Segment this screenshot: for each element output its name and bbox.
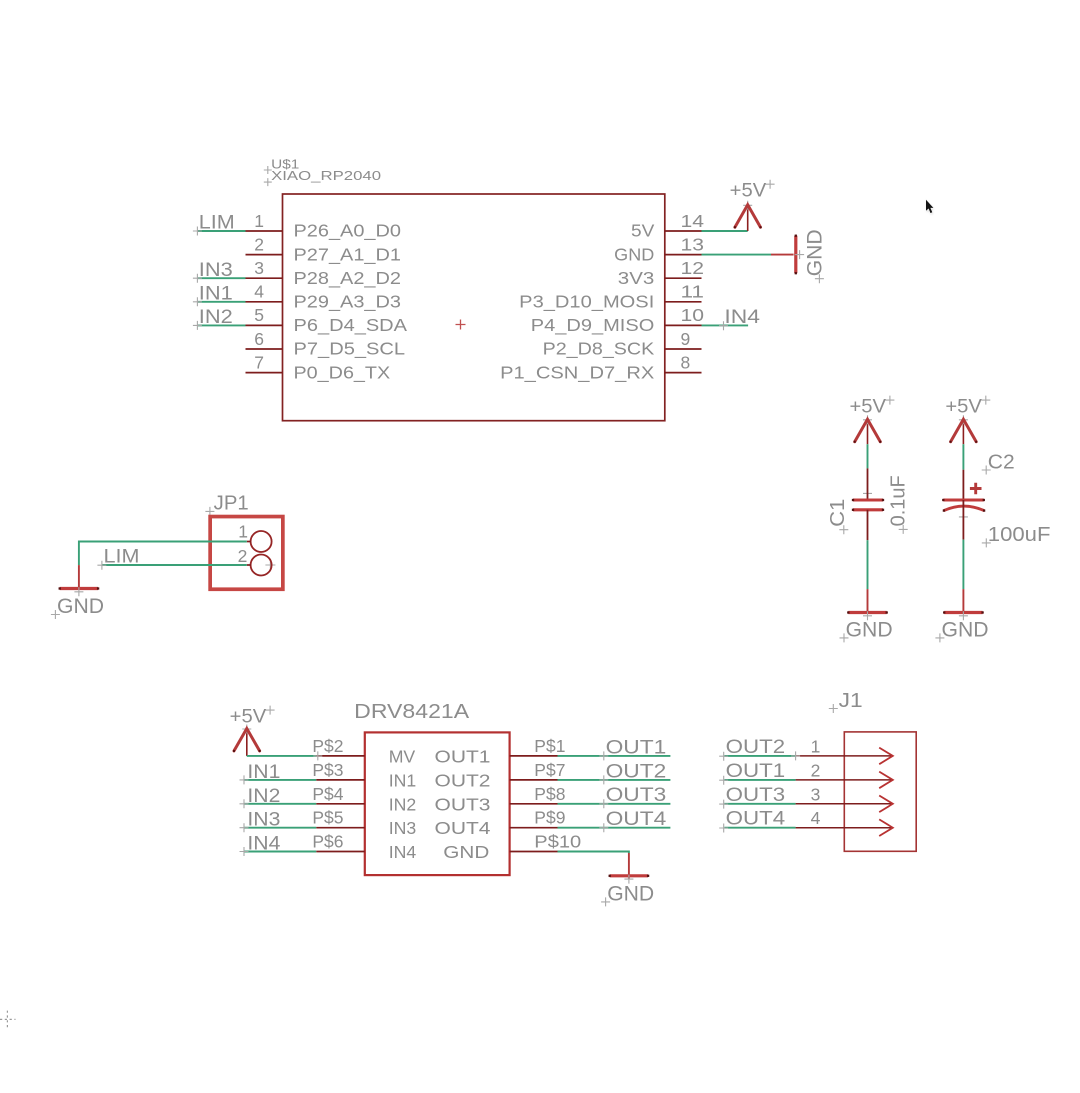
C2 polarity plus sign (970, 483, 982, 495)
power +5V symbol at DRV pin P$2 (246, 729, 248, 756)
J1 pin 4 chevron (879, 819, 893, 836)
capacitor C2 top plate (942, 499, 985, 501)
U1 pin 11 wire (665, 301, 702, 303)
svg-text:GND: GND (846, 617, 893, 641)
IC U1 XIAO_RP2040 box (283, 194, 665, 421)
DRV pin P$7 wire (510, 779, 558, 781)
J1 pin 4 wire (796, 827, 893, 829)
svg-text:OUT1: OUT1 (435, 746, 491, 766)
J1 pin 3 wire (796, 803, 893, 805)
svg-text:P0_D6_TX: P0_D6_TX (294, 362, 391, 383)
ground GND symbol below DRV (610, 874, 648, 877)
U1 pin 12 wire (665, 277, 702, 279)
svg-text:2: 2 (811, 760, 821, 780)
wire net OUT1 from DRV (558, 755, 671, 757)
wire +5V to C1 (867, 444, 869, 468)
svg-text:3: 3 (254, 258, 264, 278)
svg-text:OUT2: OUT2 (435, 770, 491, 790)
svg-text:8: 8 (681, 352, 691, 372)
connector J1 box (844, 732, 916, 851)
svg-text:5: 5 (254, 305, 264, 325)
wire C1 to GND (867, 540, 869, 589)
svg-text:P$6: P$6 (312, 832, 343, 852)
GND supply pin wire (771, 254, 794, 256)
DRV pin P$2 wire (316, 755, 365, 757)
ground GND symbol below JP1 (60, 587, 98, 590)
DRV pin P$3 wire (316, 779, 365, 781)
svg-text:C1: C1 (827, 499, 849, 527)
IC DRV8421A box (365, 732, 510, 875)
wire net IN2 to U1 pin 5 (198, 324, 246, 326)
C2 top pin wire (962, 470, 964, 500)
ground GND symbol below C1 (848, 611, 886, 614)
ground GND rotated symbol at U1 pin 13 (795, 235, 797, 275)
wire net IN1 to DRV (244, 779, 316, 781)
svg-text:1: 1 (254, 211, 264, 231)
svg-text:OUT2: OUT2 (726, 737, 786, 758)
wire net OUT3 to J1 pin 3 (724, 803, 795, 805)
svg-text:1: 1 (811, 736, 821, 756)
wire +5V to DRV P$2 (247, 755, 316, 757)
U1 pin 14 wire (665, 230, 702, 232)
JP1 pin 2 origin cross (265, 560, 275, 570)
U1 pin 2 wire (246, 254, 283, 256)
wire net OUT4 to J1 pin 4 (724, 827, 795, 829)
wire net OUT2 to J1 pin 1 (724, 755, 795, 757)
svg-text:P$5: P$5 (312, 808, 343, 828)
capacitor C1 plates (852, 499, 884, 511)
svg-text:P$1: P$1 (534, 736, 565, 756)
wire JP1 pin 1 to GND (79, 542, 247, 566)
C1 bottom pin wire (867, 510, 869, 540)
DRV pin P$4 wire (316, 803, 365, 805)
svg-text:100uF: 100uF (988, 524, 1051, 546)
svg-text:J1: J1 (839, 690, 863, 712)
svg-text:LIM: LIM (199, 213, 235, 234)
svg-text:+5V: +5V (945, 397, 982, 418)
svg-text:6: 6 (254, 329, 264, 349)
U1 pin 6 wire (246, 348, 283, 350)
U1 pin 13 wire (665, 254, 702, 256)
wire net +5V from U1 pin 14 (702, 230, 748, 232)
svg-text:GND: GND (942, 617, 989, 641)
wire net GND from U1 pin 13 (702, 254, 772, 256)
svg-text:C2: C2 (988, 451, 1015, 473)
svg-text:P$10: P$10 (534, 832, 581, 852)
J1 pin 1 wire (796, 755, 893, 757)
connector JP1 box (210, 517, 283, 590)
GND supply pin wire below JP1 (78, 565, 80, 588)
svg-text:2: 2 (254, 234, 264, 254)
svg-text:1: 1 (238, 522, 248, 542)
capacitor C2 curved bottom plate (943, 506, 986, 512)
wire net LIM to U1 pin 1 (198, 230, 246, 232)
svg-text:P26_A0_D0: P26_A0_D0 (294, 221, 402, 242)
svg-text:P27_A1_D1: P27_A1_D1 (294, 244, 402, 265)
svg-text:OUT4: OUT4 (435, 818, 491, 838)
DRV pin P$6 wire (316, 851, 365, 853)
DRV pin P$1 wire (510, 755, 558, 757)
wire net GND from DRV P$10 (558, 852, 629, 854)
svg-text:P29_A3_D3: P29_A3_D3 (294, 292, 402, 313)
svg-text:P$7: P$7 (534, 760, 565, 780)
svg-text:P28_A2_D2: P28_A2_D2 (294, 268, 402, 289)
wire net IN1 to U1 pin 4 (198, 301, 246, 303)
svg-text:P$2: P$2 (312, 736, 343, 756)
JP1 pin 1 pad circle (251, 531, 272, 552)
wire net IN2 to DRV (244, 803, 316, 805)
svg-text:10: 10 (681, 305, 705, 325)
GND supply pin wire below DRV (628, 853, 630, 879)
svg-text:+5V: +5V (850, 397, 887, 418)
U1 pin 7 wire (246, 372, 283, 374)
DRV pin P$9 wire (510, 827, 558, 829)
svg-text:IN1: IN1 (247, 762, 280, 783)
svg-text:4: 4 (811, 808, 821, 828)
wire net OUT2 from DRV (558, 779, 671, 781)
C2 bottom pin wire (959, 512, 968, 521)
svg-text:12: 12 (681, 258, 705, 278)
svg-text:OUT1: OUT1 (726, 761, 786, 782)
svg-text:IN3: IN3 (199, 260, 233, 281)
U1 pin 9 wire (665, 348, 702, 350)
svg-text:P1_CSN_D7_RX: P1_CSN_D7_RX (500, 362, 654, 383)
mouse cursor (926, 200, 934, 215)
wire net OUT1 to J1 pin 2 (724, 779, 795, 781)
power +5V symbol at U1 pin 14 (747, 205, 749, 231)
svg-text:P6_D4_SDA: P6_D4_SDA (294, 315, 408, 336)
wire net LIM to JP1 pin 2 (102, 564, 247, 566)
svg-text:+5V: +5V (230, 707, 267, 728)
svg-text:IN2: IN2 (199, 307, 233, 328)
svg-text:9: 9 (681, 329, 691, 349)
svg-text:IN2: IN2 (389, 794, 417, 814)
JP1 pin 1 stub (247, 541, 251, 543)
U1 pin 5 wire (246, 324, 283, 326)
sheet origin dashed cross (0, 1011, 16, 1029)
svg-text:JP1: JP1 (214, 493, 249, 515)
J1 pin 2 wire (796, 779, 893, 781)
svg-text:0.1uF: 0.1uF (888, 475, 910, 526)
svg-text:5V: 5V (631, 221, 655, 241)
J1 pin 3 chevron (879, 796, 893, 813)
svg-text:GND: GND (443, 842, 489, 862)
svg-text:IN4: IN4 (247, 834, 280, 855)
svg-text:IN3: IN3 (389, 818, 417, 838)
wire net OUT3 from DRV (558, 803, 671, 805)
svg-text:XIAO_RP2040: XIAO_RP2040 (271, 169, 381, 183)
DRV pin P$10 wire (510, 851, 558, 853)
svg-text:P3_D10_MOSI: P3_D10_MOSI (519, 292, 654, 313)
ground GND symbol below C2 (944, 611, 982, 614)
svg-text:P2_D8_SCK: P2_D8_SCK (543, 339, 655, 360)
U1 pin 1 wire (246, 230, 283, 232)
U1 pin 4 wire (246, 301, 283, 303)
GND supply pin wire below C1 (867, 589, 869, 612)
svg-text:P$8: P$8 (534, 784, 565, 804)
DRV pin P$5 wire (316, 827, 365, 829)
svg-text:P4_D9_MISO: P4_D9_MISO (531, 315, 655, 336)
svg-text:P7_D5_SCL: P7_D5_SCL (294, 339, 406, 360)
svg-text:7: 7 (254, 352, 264, 372)
power +5V symbol above C2 (962, 420, 964, 445)
svg-text:IN1: IN1 (389, 770, 417, 790)
J1 origin cross (791, 751, 800, 760)
svg-text:14: 14 (681, 211, 705, 231)
svg-text:LIM: LIM (104, 546, 140, 567)
svg-text:OUT1: OUT1 (606, 737, 667, 758)
U1 pin 10 wire (665, 324, 702, 326)
svg-text:MV: MV (389, 746, 416, 766)
svg-text:IN1: IN1 (199, 284, 233, 305)
svg-text:OUT4: OUT4 (726, 809, 786, 830)
svg-text:3V3: 3V3 (618, 268, 655, 288)
svg-text:DRV8421A: DRV8421A (354, 701, 470, 723)
JP1 pin 2 pad circle (251, 555, 272, 576)
J1 pin 2 chevron (879, 772, 893, 789)
GND supply pin wire below C2 (962, 589, 964, 612)
U1 origin cross (456, 320, 466, 330)
J1 pin 1 chevron (879, 748, 893, 765)
svg-text:11: 11 (681, 282, 705, 302)
U1 pin 8 wire (665, 372, 702, 374)
svg-text:P$9: P$9 (534, 808, 565, 828)
wire net IN3 to U1 pin 3 (198, 277, 246, 279)
svg-text:OUT3: OUT3 (726, 785, 786, 806)
DRV pin P$8 wire (510, 803, 558, 805)
svg-text:GND: GND (57, 594, 104, 618)
wire C2 to GND (962, 540, 964, 590)
svg-text:4: 4 (254, 282, 264, 302)
svg-text:GND: GND (614, 244, 654, 264)
wire net IN3 to DRV (244, 827, 316, 829)
wire net OUT4 from DRV (558, 827, 671, 829)
svg-text:13: 13 (681, 234, 705, 254)
svg-text:+5V: +5V (730, 181, 767, 202)
svg-text:IN2: IN2 (247, 786, 280, 807)
svg-text:P$4: P$4 (312, 784, 343, 804)
svg-text:GND: GND (607, 881, 654, 905)
JP1 pin 2 stub (247, 564, 251, 566)
svg-text:OUT3: OUT3 (606, 785, 667, 806)
svg-text:OUT2: OUT2 (606, 761, 667, 782)
wire +5V to C2 (962, 444, 964, 470)
svg-text:IN4: IN4 (724, 307, 760, 328)
svg-text:IN4: IN4 (389, 842, 417, 862)
svg-text:2: 2 (238, 546, 248, 566)
svg-text:GND: GND (802, 229, 826, 276)
wire net IN4 at U1 pin 10 (702, 324, 749, 326)
svg-text:3: 3 (811, 784, 821, 804)
U1 pin 3 wire (246, 277, 283, 279)
svg-text:P$3: P$3 (312, 760, 343, 780)
wire net IN4 to DRV (244, 851, 316, 853)
C1 top pin wire (863, 489, 872, 498)
power +5V symbol above C1 (867, 420, 869, 445)
svg-text:OUT3: OUT3 (435, 794, 491, 814)
svg-text:OUT4: OUT4 (606, 809, 667, 830)
svg-text:IN3: IN3 (247, 810, 280, 831)
